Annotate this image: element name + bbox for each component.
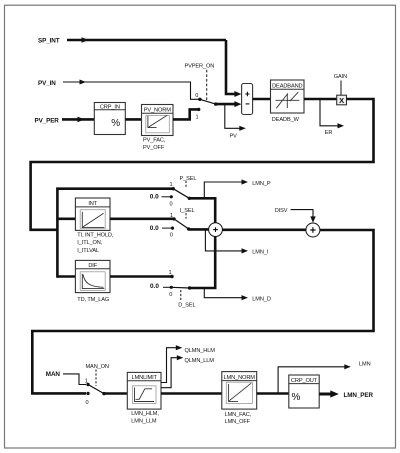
- node PV tap: [225, 104, 243, 128]
- svg-text:LMN_P: LMN_P: [252, 181, 271, 187]
- wire LMN_NORM to CRP_OUT: [257, 392, 289, 395]
- svg-text:DEADB_W: DEADB_W: [272, 117, 300, 123]
- wire MAN common to LMNLIMIT: [104, 392, 127, 395]
- svg-text:LMN_OFF: LMN_OFF: [225, 419, 251, 425]
- svg-text:DIF: DIF: [88, 263, 97, 269]
- svg-text:LMN_FAC,: LMN_FAC,: [225, 412, 252, 418]
- svg-text:%: %: [111, 118, 120, 129]
- svg-text:0.0: 0.0: [150, 225, 159, 232]
- svg-text:LMN_D: LMN_D: [252, 297, 271, 303]
- normalizer PV_NORM: [142, 105, 174, 136]
- wire P branch: [57, 187, 173, 190]
- wire DIF to D_SEL: [110, 275, 172, 278]
- converter CRP_OUT: [289, 375, 319, 408]
- wire PV_IN: [63, 82, 199, 99]
- svg-text:LMN: LMN: [359, 362, 371, 368]
- svg-text:LMN_NORM: LMN_NORM: [224, 375, 256, 381]
- svg-text:LMN_I: LMN_I: [252, 250, 269, 256]
- arrow into summer minus: [234, 101, 241, 107]
- svg-text:PV_PER: PV_PER: [35, 117, 60, 124]
- svg-text:INT: INT: [88, 201, 97, 207]
- wire to DISV summer: [222, 229, 306, 232]
- svg-text:1: 1: [195, 115, 198, 121]
- svg-text:X: X: [339, 96, 344, 105]
- svg-text:0: 0: [85, 400, 88, 406]
- svg-text:GAIN: GAIN: [334, 74, 347, 80]
- wire LMNLIMIT to LMN_NORM: [161, 392, 222, 395]
- wire summer to DEADBAND: [253, 98, 271, 101]
- wire trunk vertical: [56, 187, 59, 277]
- node LMN tap: [278, 367, 347, 394]
- wire LMN loop to manual switch: [32, 230, 373, 393]
- svg-text:PV_IN: PV_IN: [38, 80, 56, 87]
- svg-text:0: 0: [169, 201, 172, 207]
- node QLMN_HLM: [161, 348, 179, 383]
- summer circle PID: [209, 223, 223, 237]
- svg-text:0.0: 0.0: [150, 194, 159, 201]
- svg-text:SP_INT: SP_INT: [38, 38, 60, 45]
- node ER tap: [320, 99, 341, 126]
- switch PVPER_ON: [185, 63, 218, 120]
- svg-text:QLMN_HLM: QLMN_HLM: [185, 348, 216, 354]
- svg-text:I_SEL: I_SEL: [180, 208, 195, 214]
- switch P_SEL: [150, 176, 197, 208]
- svg-text:LMN_LLM: LMN_LLM: [131, 419, 157, 425]
- svg-text:QLMN_LLM: QLMN_LLM: [185, 358, 215, 364]
- svg-text:0: 0: [169, 292, 172, 298]
- wire I to summing circle: [189, 228, 209, 231]
- deadband DEADBAND: [271, 80, 305, 113]
- wire error feedback loop: [31, 99, 374, 230]
- switch D_SEL: [150, 270, 196, 309]
- wire PV_PER to CRP_IN: [62, 118, 97, 121]
- svg-text:1: 1: [169, 182, 172, 188]
- svg-text:I_ITL_ON,: I_ITL_ON,: [77, 240, 102, 246]
- node LMN_PER output: [319, 393, 331, 396]
- svg-text:PV: PV: [230, 133, 238, 139]
- svg-text:MAN: MAN: [46, 371, 61, 378]
- svg-text:TD, TM_LAG: TD, TM_LAG: [77, 297, 109, 303]
- node QLMN_LLM: [161, 358, 180, 388]
- converter CRP_IN: [94, 103, 125, 135]
- wire DIF branch: [57, 275, 75, 278]
- wire MAN lead: [63, 374, 86, 385]
- wire PV_NORM to switch pin1: [173, 109, 199, 119]
- wire SP_INT horizontal: [67, 39, 226, 42]
- wire INT branch: [57, 218, 75, 221]
- svg-text:LMN_HLM,: LMN_HLM,: [131, 411, 159, 417]
- svg-text:0.0: 0.0: [150, 283, 159, 290]
- differentiator DIF: [75, 260, 110, 292]
- summer circle DISV: [306, 223, 320, 237]
- node LMN_D tap: [204, 288, 244, 298]
- svg-text:I_ITLVAL: I_ITLVAL: [77, 248, 99, 254]
- svg-text:LMNLIMIT: LMNLIMIT: [132, 375, 158, 381]
- switch I_SEL: [150, 208, 195, 239]
- svg-text:0: 0: [195, 93, 198, 99]
- arrow into summer plus: [234, 91, 241, 97]
- svg-text:PV_OFF: PV_OFF: [143, 145, 165, 151]
- wire switch common to summer minus: [216, 103, 236, 106]
- normalizer LMN_NORM: [222, 372, 257, 410]
- wire D to summing circle: [190, 237, 216, 288]
- svg-text:CRP_OUT: CRP_OUT: [291, 378, 318, 384]
- svg-text:MAN_ON: MAN_ON: [86, 364, 109, 370]
- integrator INT: [75, 198, 110, 230]
- node DISV input: [275, 208, 316, 223]
- summer box: [242, 84, 253, 115]
- gain GAIN multiplier: [334, 74, 347, 105]
- svg-text:PVPER_ON: PVPER_ON: [185, 63, 215, 69]
- svg-text:0: 0: [170, 233, 173, 239]
- node LMN_P tap: [204, 182, 244, 198]
- svg-text:TI, INT_HOLD,: TI, INT_HOLD,: [77, 232, 114, 238]
- svg-text:DISV: DISV: [275, 208, 288, 214]
- svg-text:ER: ER: [325, 130, 333, 136]
- svg-text:PV_FAC,: PV_FAC,: [143, 137, 166, 143]
- arrow on PV_IN wire: [80, 80, 87, 85]
- svg-text:DEADBAND: DEADBAND: [272, 83, 302, 89]
- svg-text:P_SEL: P_SEL: [180, 176, 197, 182]
- switch MAN_ON: [85, 364, 109, 406]
- svg-text:%: %: [292, 392, 301, 403]
- limiter LMNLIMIT: [127, 372, 161, 409]
- svg-text:1: 1: [168, 270, 171, 276]
- wire DEADBAND to gain: [304, 98, 337, 101]
- svg-text:PV_NORM: PV_NORM: [144, 108, 171, 114]
- svg-text:CRP_IN: CRP_IN: [100, 104, 120, 110]
- svg-text:LMN_PER: LMN_PER: [344, 392, 374, 399]
- wire INT to I_SEL: [110, 218, 174, 221]
- arrow on PV_PER wire: [78, 117, 85, 123]
- svg-text:D_SEL: D_SEL: [178, 303, 195, 309]
- arrow on SP_INT wire: [82, 37, 89, 43]
- node LMN_I tap: [205, 229, 244, 251]
- wire CRP_IN to PV_NORM: [125, 118, 142, 121]
- wire P to summing circle: [189, 198, 215, 223]
- wire SP_INT down to summer: [226, 40, 236, 94]
